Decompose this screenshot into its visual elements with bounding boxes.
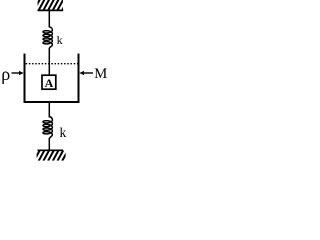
svg-text:k: k: [60, 125, 67, 140]
svg-text:A: A: [45, 76, 54, 90]
svg-text:ρ: ρ: [1, 64, 10, 84]
svg-text:k: k: [57, 33, 63, 47]
svg-text:M: M: [94, 66, 107, 82]
